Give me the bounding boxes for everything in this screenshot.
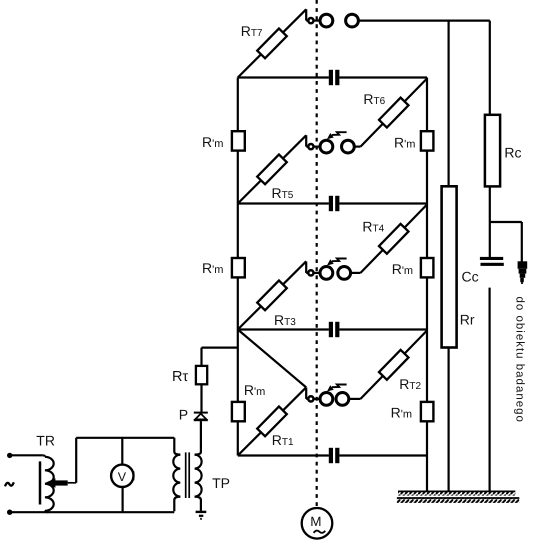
label RT2 [399,376,421,392]
svg-text:do obiektu badanego: do obiektu badanego [514,297,526,423]
wire stage bus 1 right segment [339,454,427,456]
spark gap S3 (trigger electrode + spheres) [306,132,354,153]
label RT3 [274,312,296,328]
label TP [212,475,230,491]
wire stage bus 4 right segment [339,76,427,78]
resistor Rc [485,115,500,187]
voltmeter V [111,438,134,512]
capacitor Cc [480,257,504,266]
capacitor C3 (stage capacitor) [329,196,340,211]
wire Cc to ground [489,288,491,492]
label Cc [462,268,479,284]
resistor R'm (right, stage 2) [421,258,434,277]
wire sphere to RT2 [349,398,360,400]
ground (hatched earth bar) [397,491,519,503]
svg-text:Rr: Rr [460,311,475,327]
label do obiektu badanego [514,297,526,423]
spark gap S4 (trigger electrode + spheres) [306,9,358,27]
resistor RT1 (diagonal) [238,387,306,455]
wire sphere to RT6 [355,146,361,148]
resistor R'm (left, stage 2) [232,258,245,277]
wire diode to TP secondary [200,421,202,452]
svg-text:Rc: Rc [504,145,521,161]
transformer TP [173,438,201,511]
resistor Rtau [196,366,207,384]
svg-text:TP: TP [212,475,230,491]
ground symbol below TP [196,512,207,519]
wire top output line [358,20,490,22]
label RT5 [272,185,294,201]
svg-text:P: P [179,407,188,423]
svg-text:Cc: Cc [462,268,479,284]
resistor Rr (tall column) [442,186,457,347]
label TR [36,433,55,449]
variac tap arrow [45,438,76,488]
label Rr [460,311,475,327]
spark gap S2 (trigger electrode + spheres) [306,259,350,280]
wire Rr to ground [448,348,450,492]
resistor R'm (right, stage 1) [421,402,434,421]
wire output tap [490,222,522,262]
AC source symbol [5,482,14,486]
resistor RT5 (diagonal) [238,135,306,203]
label R'm left stage3 [202,134,223,150]
output arrow (do obiektu badanego) [518,261,528,284]
resistor RT4 (diagonal) [361,205,428,273]
svg-text:Rτ: Rτ [172,369,188,385]
capacitor C2 (stage capacitor) [329,322,340,337]
wire Rtau to diode P [200,384,202,412]
wire stage bus 4 left segment [238,76,329,78]
wire sphere to RT4 [351,272,360,274]
motor M (gap trigger drive) [302,508,333,539]
svg-text:M: M [310,514,321,529]
wire stage bus 1 left segment [238,454,329,456]
label RT4 [362,219,384,235]
label R'm right stage3 [394,134,415,150]
wire left bus to Rtau [202,348,238,366]
wire charging diagonal to gap 1 [238,330,306,388]
wire Rc to capacitor Cc [489,186,491,257]
wire stage bus 3 right segment [339,202,427,204]
wire left charging column [237,78,239,456]
capacitor C1 (stage capacitor) [329,448,340,463]
label Rtau [172,369,188,385]
resistor RT2 (diagonal) [361,331,428,399]
wire right column to ground [426,78,428,492]
resistor R'm (left, stage 1) [232,402,245,421]
wire loop bottom [10,511,175,513]
wire loop top (TR tap to V and TP) [76,437,174,439]
wire stage bus 3 left segment [238,202,329,204]
label Rc [504,145,521,161]
spark gap S1 (trigger electrode + spheres) [306,385,349,406]
label RT6 [363,91,385,107]
wire stage bus 2 right segment [339,328,427,330]
label R'm right stage2 [392,261,413,277]
wire top node down to Rc [489,21,491,115]
resistor R'm (right, stage 3) [421,131,434,150]
resistor RT7 (diagonal) [238,9,306,77]
transformer TR (variac) [7,453,54,515]
diode P [194,413,208,421]
label R'm right stage1 [391,404,412,420]
label RT1 [272,432,294,448]
label P [179,407,188,423]
label R'm left stage2 [202,260,223,276]
resistor R'm (left, stage 3) [232,131,245,150]
resistor RT3 (diagonal) [238,261,306,329]
capacitor C4 (stage capacitor) [329,70,340,85]
label RT7 [241,23,263,39]
wire top node down to Rr column [448,21,450,187]
trigger shaft (dotted line) [316,0,318,508]
svg-text:V: V [118,470,127,484]
resistor RT6 (diagonal) [361,79,428,147]
svg-text:TR: TR [36,433,55,449]
label R'm left stage1 [244,382,265,398]
wire stage bus 2 left segment [238,328,329,330]
